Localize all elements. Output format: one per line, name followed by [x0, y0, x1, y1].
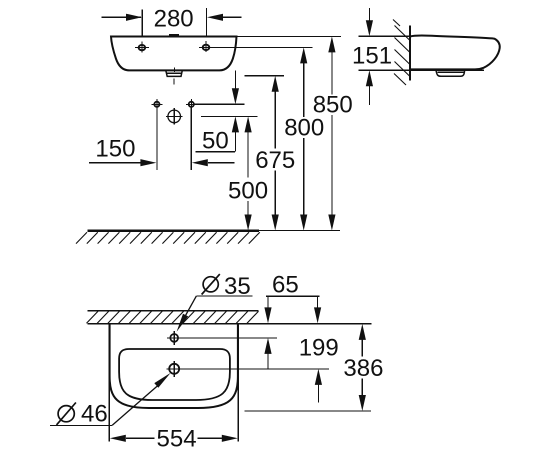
basin side view profile: [410, 35, 500, 69]
dimension 500: [228, 116, 268, 230]
dimension 151: [352, 8, 484, 105]
svg-text:675: 675: [255, 147, 295, 174]
wall band top line (top view): [88, 310, 259, 312]
tap hole right (front view): [199, 41, 213, 52]
extension below left fixing hole: [156, 108, 158, 171]
tap hole left (front view): [135, 41, 149, 52]
tap hole (top view): [167, 331, 277, 345]
svg-text:386: 386: [343, 355, 383, 382]
dimension 850: [237, 36, 353, 230]
reference line crosshair level: [201, 115, 258, 117]
wall hatching (top view): [87, 311, 259, 323]
label diameter 35: [177, 273, 253, 332]
center dash below trap: [173, 79, 175, 85]
svg-text:65: 65: [272, 271, 299, 298]
svg-text:151: 151: [352, 42, 392, 69]
basin top view outer outline: [110, 324, 238, 408]
svg-text:280: 280: [154, 6, 194, 33]
drain hole (top view): [166, 361, 329, 377]
wall hatching (side view): [393, 20, 410, 86]
dimension 50: [196, 71, 240, 155]
dimension 150: [89, 136, 235, 167]
drain trap (side view): [436, 70, 465, 76]
svg-text:150: 150: [95, 136, 135, 163]
dimension 199: [299, 296, 339, 402]
dimension 554: [109, 325, 238, 450]
basin top view inner outline: [119, 349, 230, 400]
svg-text:500: 500: [228, 177, 268, 204]
dimension 675: [245, 76, 296, 231]
svg-text:554: 554: [157, 426, 197, 450]
svg-text:46: 46: [81, 400, 108, 427]
wall line (side view): [409, 26, 411, 81]
floor hatching: [76, 232, 260, 243]
svg-text:850: 850: [313, 91, 353, 118]
crosshair reference circle: [166, 108, 183, 125]
extension below right fixing hole: [190, 108, 192, 171]
reference line fixing-hole level: [195, 103, 245, 105]
svg-text:800: 800: [284, 115, 324, 142]
svg-text:199: 199: [299, 334, 339, 361]
dimension 65: [264, 271, 319, 369]
dimension 386: [245, 324, 384, 411]
overflow tick front view: [169, 34, 179, 37]
basin front view outline: [111, 37, 237, 71]
dimension 800: [211, 47, 324, 230]
extension line left tap hole: [141, 10, 143, 37]
wall face line (top view): [88, 323, 372, 325]
fixing hole right: [186, 99, 197, 110]
extension line right tap hole: [206, 8, 208, 36]
drain trap (front view): [166, 70, 183, 76]
floor line: [88, 229, 260, 231]
dimension 280: [102, 6, 242, 33]
fixing hole left: [151, 99, 162, 110]
label diameter 46: [50, 373, 171, 427]
svg-text:50: 50: [202, 128, 229, 155]
